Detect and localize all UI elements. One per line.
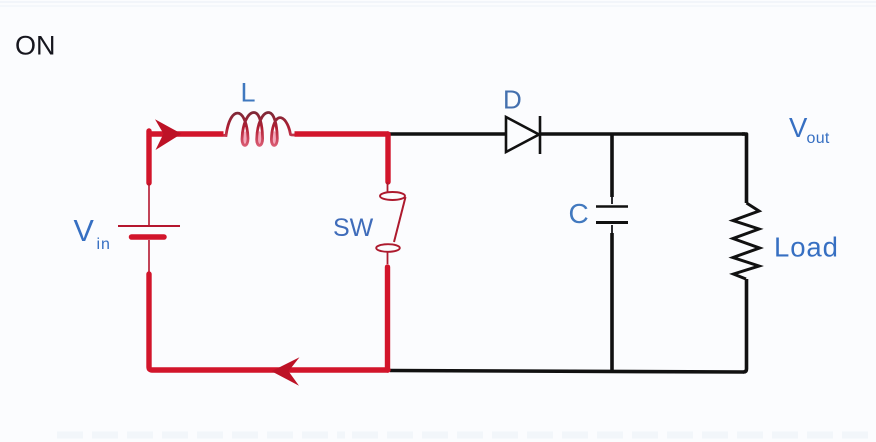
svg-text:Load: Load <box>774 232 839 263</box>
inductor L coil loop fills <box>243 131 248 147</box>
svg-text:out: out <box>807 130 830 147</box>
svg-text:in: in <box>97 236 111 253</box>
wire: red top wire from inductor to SW node <box>295 131 389 136</box>
wire: black top wire from SW node to diode anode <box>388 132 506 136</box>
wire: red left vertical top thick segment <box>146 131 151 183</box>
wire: red top wire from corner to inductor <box>147 131 224 136</box>
wire: capacitor branch vertical bottom segment <box>611 225 613 234</box>
resistor Load zigzag <box>733 203 760 279</box>
wire: thin lead below battery <box>148 240 150 272</box>
arrow current direction (left) on bottom wire <box>272 357 300 385</box>
svg-text:L: L <box>241 78 256 108</box>
wire: red SW branch vertical thick bottom <box>385 267 390 370</box>
wire: thin lead from switch bottom contact <box>387 252 389 264</box>
svg-text:SW: SW <box>333 214 374 242</box>
svg-text:C: C <box>569 198 589 229</box>
battery Vin long plate <box>118 225 180 227</box>
wire: thin lead to switch top contact <box>387 182 389 192</box>
wire: red left vertical bottom thick segment + bottom wire to arrow <box>149 274 388 370</box>
arrow current direction (right) on top wire <box>155 119 182 150</box>
svg-text:D: D <box>503 85 522 115</box>
switch SW bottom contact <box>376 244 400 252</box>
faint top edge lines <box>0 1 876 3</box>
wire: right vertical wire top segment (Vout corner down to load) <box>742 134 747 203</box>
capacitor C top plate <box>596 205 628 208</box>
wire: red SW branch vertical thick top <box>385 134 390 182</box>
wire: capacitor branch vertical top segment <box>610 134 614 197</box>
svg-text:ON: ON <box>15 31 56 61</box>
wire: right vertical wire bottom segment <box>744 279 747 372</box>
switch SW top contact <box>380 192 405 200</box>
faint bottom edge dashes <box>57 432 345 439</box>
svg-text:V: V <box>74 214 95 248</box>
wire: black bottom wire from SW node to load corner <box>390 371 744 373</box>
switch SW lever <box>394 197 406 242</box>
inductor L coil <box>224 113 296 146</box>
diode D <box>506 116 540 154</box>
svg-text:V: V <box>789 112 808 143</box>
capacitor C bottom plate <box>596 221 628 224</box>
battery Vin short plate <box>132 234 165 240</box>
wire: thin lead to battery top plate <box>148 183 150 225</box>
wire: black top wire from diode cathode to Vout corner <box>540 132 745 136</box>
